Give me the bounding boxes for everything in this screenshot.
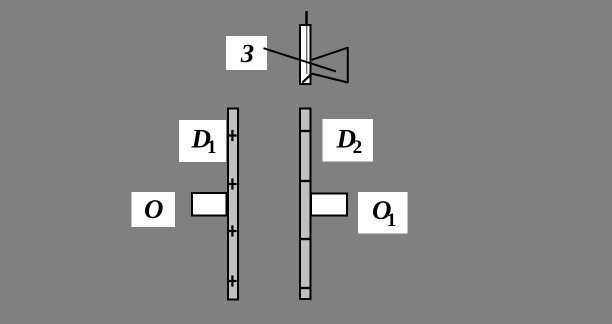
svg-text:O: O — [144, 194, 164, 224]
pointer O (white block on left bar) — [192, 193, 227, 216]
tick 2 on bar D2 — [299, 180, 312, 182]
svg-text:1: 1 — [207, 137, 217, 158]
plus sign 1 on bar D1 — [228, 130, 236, 141]
wire: suspension stem above tube — [305, 11, 308, 25]
plus sign 3 on bar D1 — [228, 225, 236, 236]
string (thin fiber inside tube) — [306, 26, 308, 74]
leader line from З to string — [264, 48, 337, 71]
svg-text:2: 2 — [353, 137, 363, 158]
label box O1 — [358, 192, 408, 234]
tube (white rectangle of mirror electrometer) — [300, 25, 311, 84]
svg-text:З: З — [240, 39, 254, 68]
beam lower edge — [312, 74, 348, 83]
tick 1 on bar D2 — [299, 130, 312, 132]
beam right edge — [347, 47, 349, 83]
label box З — [226, 36, 267, 70]
label box O — [132, 192, 176, 227]
beam upper edge — [312, 48, 348, 60]
pointer O1 (white block on right bar) — [311, 194, 347, 216]
bar D2 (right plate) — [300, 109, 311, 300]
tick 4 on bar D2 — [299, 287, 312, 289]
needle stub at tube bottom — [302, 73, 312, 82]
plus sign 4 on bar D1 — [228, 275, 236, 286]
svg-text:1: 1 — [387, 210, 397, 231]
bar D1 (left charged plate) — [228, 109, 238, 300]
label box D1 — [179, 120, 226, 162]
label box D2 — [323, 119, 374, 162]
tick 3 on bar D2 — [299, 238, 312, 240]
plus sign 2 on bar D1 — [228, 178, 236, 189]
